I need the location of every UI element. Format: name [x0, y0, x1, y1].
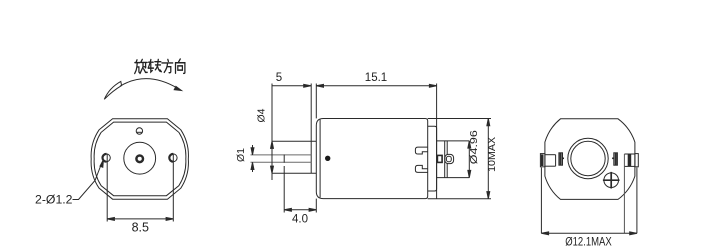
rotation arrow arc [120, 79, 178, 89]
Ø4 dimension line [271, 84, 273, 181]
rear bearing circle inner [571, 141, 605, 175]
vent screw cross circle [604, 173, 619, 188]
shaft circle [136, 156, 143, 163]
motor front inner profile [94, 122, 186, 196]
Ø4.96 dimension line [468, 141, 470, 178]
dimension line 8.5 [107, 218, 173, 220]
shaft bottom line [251, 161, 312, 163]
mounting hole left [103, 154, 111, 162]
terminal slot right [615, 153, 617, 165]
label 旋转方向 drawn strokes [135, 59, 185, 74]
char xuan [135, 60, 138, 62]
rear boss outline bottom [437, 177, 470, 179]
10MAX extension top [428, 118, 491, 120]
terminal tab right [635, 154, 638, 167]
extension line left hole [106, 154, 108, 222]
char xiang [179, 59, 181, 62]
bushing bottom line + Ø4 extension [272, 172, 316, 174]
terminal tab left [540, 154, 545, 167]
front cap crimp line [319, 120, 321, 198]
Ø12.1MAX dimension line [541, 232, 637, 234]
front boss circle [124, 142, 156, 174]
char fang [167, 59, 170, 61]
svg-text:10MAX: 10MAX [486, 137, 498, 172]
svg-text:Ø4: Ø4 [256, 108, 268, 122]
extension line right hole [172, 154, 174, 222]
svg-text:Ø12.1MAX: Ø12.1MAX [565, 235, 612, 249]
rear outer profile [545, 119, 635, 200]
bushing top line + Ø4 extension [272, 140, 316, 142]
10MAX extension bottom [428, 198, 491, 200]
terminal slot left [559, 153, 561, 165]
motor body [316, 119, 427, 199]
terminal recess left [545, 154, 556, 156]
shaft top line [251, 154, 312, 156]
rotation arrow tail [104, 81, 121, 99]
svg-text:Ø4.96: Ø4.96 [468, 130, 480, 164]
top vent hole [136, 128, 142, 134]
rear boss face lines [444, 141, 446, 178]
rear boss outline top [437, 140, 470, 142]
svg-text:Ø1: Ø1 [235, 148, 247, 162]
char zhuan [149, 61, 154, 63]
Ø1 dimension lines [252, 145, 254, 155]
svg-text:4.0: 4.0 [292, 214, 308, 226]
shaft step tick [283, 155, 285, 163]
svg-text:15.1: 15.1 [365, 72, 387, 84]
inner step line right [623, 154, 625, 233]
leader 2-Ø1.2 [73, 165, 102, 200]
dim 4.0 [283, 166, 285, 213]
mounting hole right [169, 154, 177, 162]
terminal upper [415, 147, 427, 154]
motor front outer profile [91, 119, 188, 200]
10MAX dimension line [487, 119, 489, 199]
endbell cap [428, 126, 437, 191]
svg-text:2-Ø1.2: 2-Ø1.2 [35, 195, 73, 207]
svg-text:5: 5 [276, 72, 282, 84]
ext line rear [436, 84, 438, 199]
bearing pill [445, 154, 454, 163]
dim 15.1 line [316, 85, 436, 87]
rivet dot [325, 156, 330, 161]
dim 5 line [273, 85, 311, 87]
shaft end square [437, 155, 442, 162]
rear bearing circle outer [568, 138, 608, 178]
front boss face / ext line [310, 84, 312, 174]
terminal recess right [624, 153, 635, 155]
terminal lower [415, 165, 427, 172]
svg-text:8.5: 8.5 [132, 221, 149, 235]
ext line body front face [315, 84, 317, 119]
Ø12.1MAX ext lines [540, 168, 542, 234]
